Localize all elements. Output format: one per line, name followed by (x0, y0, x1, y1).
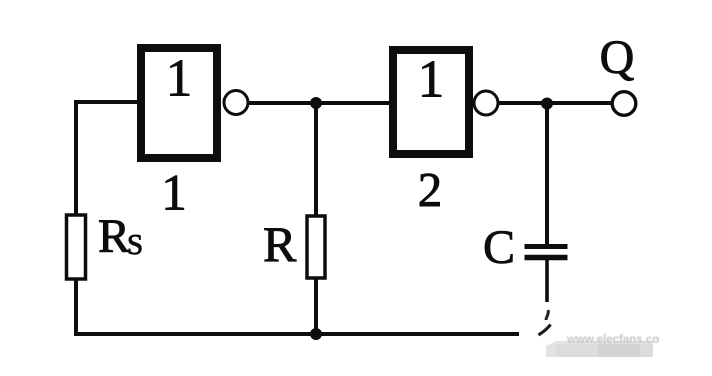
wire squiggle hook of C lead (546, 310, 548, 320)
svg-text:R: R (98, 210, 130, 263)
svg-text:1: 1 (161, 166, 187, 222)
inverter U2 bubble (474, 91, 498, 115)
svg-text:1: 1 (166, 50, 193, 108)
resistor Rs (67, 215, 86, 279)
wire left vertical to Rs (74, 100, 78, 215)
svg-text:www.elecfans.co: www.elecfans.co (566, 334, 659, 346)
svg-text:R: R (263, 216, 297, 272)
wire Rs to bottom rail (74, 279, 78, 334)
node B junction dot (541, 98, 553, 110)
capacitor C top plate (525, 244, 568, 249)
node A junction dot (310, 97, 322, 109)
svg-text:C: C (483, 221, 515, 274)
wire U1 output to U2 input (249, 101, 391, 105)
wire bottom rail (74, 332, 519, 336)
bottom junction dot (310, 328, 322, 340)
svg-text:S: S (127, 229, 143, 261)
wire C to bottom rail (545, 260, 549, 302)
inverter U1 body (141, 48, 217, 158)
wire squiggle diagonal of C lead (539, 325, 551, 336)
wire U1 input stub (74, 100, 139, 104)
wire U2 output to Q (499, 101, 612, 105)
svg-text:Q: Q (600, 31, 635, 84)
wire R to bottom rail (314, 278, 318, 334)
watermark bar (546, 341, 653, 357)
inverter U1 bubble (224, 91, 248, 115)
capacitor C bottom plate (525, 255, 568, 261)
wire node B down to C (545, 103, 549, 245)
resistor R (307, 216, 325, 278)
svg-text:1: 1 (418, 51, 445, 109)
svg-text:2: 2 (418, 162, 443, 217)
terminal Q circle (612, 92, 636, 116)
wire node A down to R (314, 103, 318, 217)
inverter U2 body (393, 50, 469, 154)
